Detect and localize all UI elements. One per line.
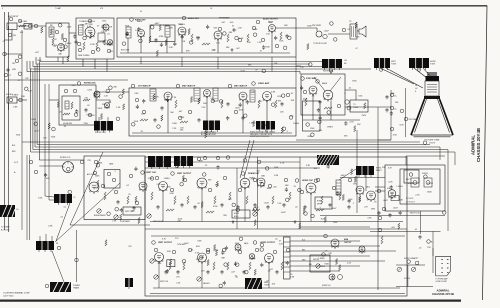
svg-text:8.2K: 8.2K: [253, 29, 258, 31]
CRT deflection band: [424, 96, 440, 99]
resistor r1br1: [201, 202, 203, 208]
wire tuner drop E: [106, 59, 108, 72]
svg-text:.0047: .0047: [324, 30, 330, 32]
svg-text:1.5K: 1.5K: [116, 107, 121, 109]
svg-text:GRN: GRN: [302, 260, 305, 262]
tube V22 horiz output: [198, 253, 207, 263]
svg-text:470K: 470K: [180, 117, 185, 119]
svg-text:72: 72: [9, 75, 11, 77]
capacitor sync2: [317, 108, 320, 112]
svg-text:6AL5: 6AL5: [366, 186, 370, 189]
marker m2: [170, 188, 174, 192]
transformer T2: [165, 26, 170, 37]
coil linearity: [356, 166, 374, 177]
tube V18b sync disc: [257, 178, 265, 187]
capacitor vif2c3: [136, 105, 139, 109]
wire tuner drop D: [94, 59, 96, 69]
coil focus: [94, 121, 113, 133]
marker r1c: [241, 172, 245, 176]
svg-text:6.8K: 6.8K: [167, 186, 172, 188]
svg-text:.0047: .0047: [340, 175, 346, 177]
wire power in 1: [375, 186, 385, 188]
coil horiz yoke: [409, 58, 429, 70]
wire blob chain A: [56, 203, 70, 241]
bias box: [167, 260, 175, 267]
speaker SP1: [359, 26, 366, 37]
capacitor lftc0: [6, 68, 9, 72]
right border wire: [483, 6, 488, 301]
capacitor sync0: [319, 116, 322, 120]
marker m9: [284, 178, 288, 182]
svg-text:SPKR R: SPKR R: [427, 183, 434, 185]
svg-text:NOISE INV: NOISE INV: [63, 123, 73, 125]
wire bundle low B: [29, 155, 31, 240]
marker sub b: [112, 178, 116, 182]
capacitor r2bc2: [225, 246, 228, 250]
marker tunm2: [58, 23, 62, 27]
wire bus U3: [33, 61, 340, 67]
resistor llr0: [120, 214, 122, 220]
wire tuner drop A: [57, 57, 59, 62]
marker 6: [107, 49, 111, 53]
marker snd2m3: [218, 27, 222, 31]
svg-text:1 MEG: 1 MEG: [293, 123, 300, 125]
capacitor C52: [193, 205, 196, 209]
discriminator sub box: [150, 25, 175, 42]
marker hl: [407, 260, 411, 264]
coil L8: [65, 101, 69, 109]
svg-text:MH: MH: [344, 63, 346, 65]
marker syn2m1: [311, 133, 315, 137]
tube V16 sync sep: [159, 182, 168, 192]
resistor r2br4: [336, 259, 338, 265]
small box fuse: [391, 196, 399, 201]
yoke plug box: [350, 100, 368, 112]
resistor r1r6: [216, 181, 218, 187]
svg-text:VERT OUTPUT: VERT OUTPUT: [177, 173, 192, 175]
wire left cluster: [17, 99, 27, 101]
marker sy2: [337, 104, 341, 108]
tint control box: [123, 207, 141, 215]
marker r1m0: [243, 159, 247, 163]
svg-text:3.3K: 3.3K: [87, 26, 92, 28]
marker left b: [4, 73, 8, 77]
capacitor r1c3: [336, 191, 339, 195]
svg-text:2.2K: 2.2K: [172, 128, 177, 130]
marker sndm3: [283, 46, 287, 50]
capacitor vifc2: [246, 100, 249, 104]
marker r2bm2: [206, 248, 210, 252]
capacitor C53: [220, 203, 223, 207]
marker r2b: [253, 241, 257, 245]
capacitor sndc3: [173, 42, 176, 46]
marker tuner: [88, 19, 92, 23]
wire bundle V2: [32, 72, 34, 150]
svg-text:VERT LIN: VERT LIN: [160, 281, 169, 283]
wire sound drop 4: [271, 57, 273, 72]
svg-text:3.3K: 3.3K: [306, 165, 311, 167]
resistor R41: [324, 107, 332, 109]
marker vif2m2: [157, 125, 161, 129]
svg-text:750K: 750K: [333, 222, 338, 224]
resistor R50: [151, 192, 153, 200]
resistor r1r0: [299, 223, 301, 229]
marker b3: [390, 127, 394, 131]
wire power rail 2: [300, 226, 370, 228]
coil L2: [79, 25, 84, 35]
capacitor r2c8: [260, 263, 263, 267]
resistor R62: [252, 209, 260, 211]
resistor vif2r1: [253, 121, 255, 127]
svg-text:750K: 750K: [83, 123, 88, 125]
svg-text:B+: B+: [395, 109, 397, 111]
wire lin drop 2: [365, 175, 367, 191]
svg-text:2.2K: 2.2K: [415, 195, 420, 197]
svg-text:HORIZ OSC: HORIZ OSC: [302, 180, 314, 182]
svg-text:5U4G: 5U4G: [387, 188, 392, 190]
capacitor syn2c1: [344, 121, 347, 125]
tube V5 audio det 6AV6: [178, 27, 186, 36]
marker 4: [78, 48, 82, 52]
capacitor C90: [418, 235, 421, 239]
marker ctlm0: [96, 163, 100, 167]
resistor R74: [249, 262, 251, 270]
marker p4: [377, 189, 381, 193]
marker n6: [238, 250, 242, 254]
wire pointer diag 1: [55, 183, 120, 242]
tube V19 horiz osc: [306, 183, 316, 194]
svg-text:HORIZ: HORIZ: [234, 213, 239, 215]
marker B+ power: [427, 240, 431, 244]
svg-text:1 MEG: 1 MEG: [318, 258, 325, 260]
wire V10 down: [206, 97, 208, 134]
svg-text:100K: 100K: [95, 176, 100, 178]
marker r1bm3: [261, 183, 265, 187]
tube V13 sync amp: [309, 86, 317, 95]
svg-text:3.3K: 3.3K: [169, 27, 174, 29]
marker left a: [8, 33, 12, 37]
wire V11 down: [242, 100, 244, 133]
marker r2bm0: [182, 259, 186, 263]
tuner main box: [76, 18, 114, 59]
potentiometer height: [197, 277, 201, 281]
resistor tun2r1: [50, 29, 52, 35]
potentiometer vert hold: [147, 214, 151, 218]
resistor R6: [96, 42, 98, 50]
svg-text:YOKE: YOKE: [353, 107, 359, 109]
resistor r1br4: [354, 176, 356, 182]
sound section box: [117, 18, 296, 57]
wire bundle V4: [36, 64, 38, 145]
resistor R30: [175, 100, 177, 108]
wire x49 extension: [49, 145, 54, 201]
wire bundle V1: [30, 69, 32, 152]
wire to connector: [432, 248, 434, 273]
wire bus L3: [35, 146, 440, 148]
svg-text:6.8K: 6.8K: [212, 50, 217, 52]
svg-text:COURTESY ADMIRAL CORP.: COURTESY ADMIRAL CORP.: [3, 292, 30, 295]
svg-text:KEYED AGC: KEYED AGC: [84, 82, 96, 85]
coil L1: [49, 27, 54, 37]
marker a1: [64, 89, 68, 93]
marker 5: [91, 50, 95, 54]
capacitor C73: [220, 270, 223, 274]
svg-text:3.3K: 3.3K: [393, 135, 398, 137]
wire sync to crt: [345, 106, 391, 108]
wire ion trap lead: [405, 88, 407, 137]
svg-text:3.3K: 3.3K: [71, 85, 76, 87]
resistor vifr6: [281, 127, 283, 133]
svg-text:750K: 750K: [16, 134, 21, 136]
svg-text:BRIGHTNESS: BRIGHTNESS: [94, 215, 106, 217]
marker T4: [342, 28, 346, 32]
svg-text:3.3K: 3.3K: [134, 93, 139, 95]
resistor vifr7: [190, 97, 192, 103]
capacitor agcc1: [75, 109, 78, 113]
marker sndm2: [288, 36, 292, 40]
marker snd2m0: [189, 41, 193, 45]
marker ll4: [101, 184, 105, 188]
wire sound-IF link edge: [295, 57, 297, 88]
svg-text:10: 10: [74, 197, 76, 199]
wire speaker to T4: [328, 33, 350, 35]
resistor agc2r2: [123, 104, 125, 110]
capacitor C72: [206, 270, 209, 274]
svg-text:470K: 470K: [90, 44, 95, 46]
svg-text:1.5K: 1.5K: [277, 203, 282, 205]
tube V20 horiz control: [356, 186, 364, 195]
svg-text:John F. Rider: John F. Rider: [3, 295, 14, 297]
potentiometer vert size: [150, 259, 154, 263]
svg-text:.0047: .0047: [331, 208, 337, 210]
marker m10: [300, 190, 304, 194]
capacitor llc3: [44, 173, 47, 177]
wire power top link: [406, 155, 445, 157]
resistor lftr1: [41, 27, 43, 33]
marker row1 t1: [197, 157, 201, 161]
marker n4: [206, 250, 210, 254]
capacitor C70: [164, 270, 167, 274]
transformer power hatched: [50, 282, 71, 292]
wire bus bend 2: [447, 150, 449, 166]
wire agc link: [96, 100, 110, 103]
marker r2bm1: [260, 243, 264, 247]
tube V23c: [249, 254, 255, 260]
tube V24 HV rect: [331, 239, 339, 248]
svg-text:FINE TUNING: FINE TUNING: [78, 55, 90, 57]
tube V15 DC restorer diode: [345, 100, 351, 110]
wire plug run 4: [290, 255, 370, 257]
trimmer box: [416, 262, 419, 265]
width control box: [315, 197, 332, 209]
marker il down: [75, 258, 79, 262]
transformer horiz output T9: [314, 155, 339, 165]
svg-text:PM SPKR: PM SPKR: [312, 25, 322, 27]
transformer horiz deflection hatched: [245, 278, 262, 289]
svg-text:VERT OSC: VERT OSC: [146, 172, 157, 174]
ground row1 a: [232, 220, 235, 223]
capacitor C58: [303, 205, 306, 209]
resistor R12: [202, 43, 210, 45]
wire bundle V5: [38, 62, 40, 161]
svg-text:CONN SOCKET: CONN SOCKET: [435, 281, 447, 283]
wire hl rail: [396, 264, 425, 266]
marker crtm0: [400, 109, 404, 113]
marker yoke a: [329, 69, 333, 73]
marker m8: [268, 184, 272, 188]
wire sync down2: [330, 101, 332, 121]
marker pwrm1: [424, 175, 428, 179]
marker 2: [55, 30, 59, 34]
svg-text:100K: 100K: [172, 123, 177, 125]
resistor R11: [191, 34, 193, 42]
svg-text:4.7K: 4.7K: [239, 38, 244, 40]
resistor R33: [140, 119, 148, 121]
marker busm0: [309, 63, 313, 67]
tube socket interlock: [63, 162, 74, 173]
svg-text:.0047: .0047: [184, 243, 190, 245]
marker agc: [77, 82, 81, 86]
resistor R81: [104, 192, 106, 200]
marker tunm0: [83, 36, 87, 40]
marker row1 t2: [203, 156, 207, 160]
marker yoke b: [379, 68, 383, 72]
marker r1a: [141, 171, 145, 175]
marker ll3: [93, 171, 97, 175]
svg-text:8.2K: 8.2K: [94, 188, 99, 190]
svg-text:HORIZ OUTPUT: HORIZ OUTPUT: [260, 242, 276, 244]
wire V6 cathode: [217, 39, 219, 53]
wire plug run 3: [290, 250, 396, 252]
marker lftm1: [18, 55, 22, 59]
svg-text:2.2K: 2.2K: [355, 36, 360, 38]
tube V7 audio output 6AQ5: [269, 25, 276, 33]
marker sound G: [275, 44, 279, 48]
svg-text:AUDIO DET: AUDIO DET: [188, 17, 200, 20]
left border wire A: [4, 12, 6, 230]
wire video out run: [296, 139, 391, 141]
svg-text:1 MEG: 1 MEG: [327, 127, 334, 129]
transformer sync blocking: [256, 121, 275, 132]
resistor R13: [227, 34, 229, 42]
svg-text:.01: .01: [210, 8, 212, 10]
marker sndm4: [122, 42, 126, 46]
wire agc to IF: [96, 91, 129, 93]
svg-text:DAMPER: DAMPER: [344, 241, 352, 244]
svg-text:YOKE: YOKE: [264, 285, 270, 287]
marker agcm1: [74, 113, 78, 117]
capacitor sndc0: [262, 45, 265, 49]
resistor R31: [221, 100, 223, 108]
transformer vert blocking: [148, 156, 171, 169]
resistor R57: [289, 192, 291, 200]
resistor r1r11: [324, 217, 326, 223]
svg-text:750K: 750K: [37, 60, 42, 62]
resistor R1: [19, 25, 26, 27]
capacitor C60: [347, 205, 350, 209]
marker r1m1: [236, 208, 240, 212]
marker midm0: [52, 127, 56, 131]
svg-text:PICTURE TUBE: PICTURE TUBE: [425, 140, 440, 142]
svg-text:4.7K: 4.7K: [196, 259, 201, 261]
svg-text:.0047: .0047: [235, 107, 241, 109]
capacitor sndc4: [274, 36, 277, 40]
wire bus L4: [37, 144, 430, 146]
marker r1m4: [202, 173, 206, 177]
capacitor tunc1: [74, 40, 77, 44]
wire yoke diag 2: [386, 68, 423, 88]
tube V8 AGC: [94, 91, 100, 98]
svg-text:6.8K: 6.8K: [13, 106, 18, 108]
marker if5: [142, 110, 146, 114]
marker if4: [135, 98, 139, 102]
capacitor C32: [160, 106, 163, 110]
svg-text:2.2K: 2.2K: [347, 262, 352, 264]
wire control lower: [70, 224, 150, 226]
capacitor C14: [285, 34, 288, 38]
marker agc2m1: [106, 89, 110, 93]
wire V12 down: [266, 101, 268, 134]
svg-text:BUS LINE: BUS LINE: [121, 50, 130, 52]
marker sound F: [261, 38, 265, 42]
svg-text:6.8K: 6.8K: [197, 240, 202, 242]
resistor llr1: [135, 196, 137, 202]
potentiometer width: [316, 264, 320, 268]
resistor R56: [272, 196, 274, 204]
svg-text:4.7K: 4.7K: [349, 121, 354, 123]
transformer filter choke: [36, 241, 54, 252]
marker ll5: [114, 190, 118, 194]
wire V5 cathode: [181, 35, 183, 53]
wire bus L2: [33, 149, 448, 151]
capacitor vifc1: [226, 116, 229, 120]
svg-text:6.8K: 6.8K: [274, 175, 279, 177]
marker synm2: [327, 111, 331, 115]
resistor R61: [206, 211, 214, 213]
svg-text:1 MEG: 1 MEG: [163, 178, 170, 180]
wire interlock down: [76, 230, 78, 282]
wire V7 cathode: [271, 32, 273, 54]
capacitor snd2c2: [137, 27, 140, 31]
svg-text:180K: 180K: [109, 163, 114, 165]
capacitor C56: [266, 205, 269, 209]
marker sy1: [301, 77, 305, 81]
marker ll1: [80, 160, 84, 164]
svg-text:3.3K: 3.3K: [169, 47, 174, 49]
wire V17 down: [201, 188, 203, 222]
resistor ctlr1: [138, 217, 140, 223]
resistor vif2r2: [153, 94, 155, 100]
svg-text:2.2K: 2.2K: [156, 184, 161, 186]
marker sub a: [107, 172, 111, 176]
svg-text:1ST VIDEO IF: 1ST VIDEO IF: [138, 86, 152, 88]
svg-text:3.3K: 3.3K: [195, 253, 200, 255]
wire focus lead B: [107, 117, 109, 121]
wire focus lead A: [98, 117, 100, 121]
tube V23b trap: [235, 244, 241, 251]
resistor R32: [258, 100, 260, 108]
resistor R55: [246, 196, 248, 204]
tube V10 2nd IF: [204, 90, 211, 98]
marker b2: [390, 106, 394, 110]
wire choke lead A: [39, 236, 41, 241]
marker r2c: [324, 234, 328, 238]
marker n1: [154, 248, 158, 252]
svg-text:750K: 750K: [125, 25, 130, 27]
capacitor C5: [102, 40, 105, 44]
tube V11 3rd IF 6CB6: [239, 92, 247, 101]
svg-text:4.7K: 4.7K: [162, 238, 167, 240]
